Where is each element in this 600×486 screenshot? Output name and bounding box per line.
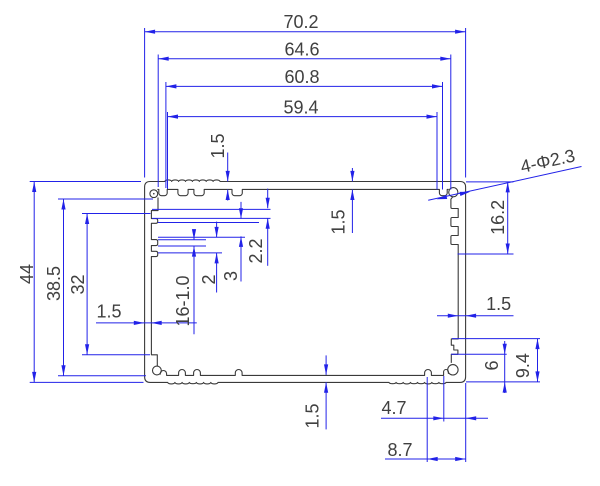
dim 70.2 line and arrows	[145, 31, 466, 33]
svg-text:1.5: 1.5	[329, 209, 349, 234]
inner ceiling with screw-groove notches	[157, 189, 448, 195]
dim 1.5 bottom wall line and arrows	[325, 355, 327, 375]
inner right wall with screw channel steps	[451, 197, 458, 363]
dim 1.5 left wall line and arrows	[96, 322, 197, 324]
dim 16.2 extension lines	[466, 181, 514, 183]
svg-text:32: 32	[68, 274, 88, 294]
svg-text:1.5: 1.5	[208, 133, 228, 158]
svg-text:59.4: 59.4	[283, 97, 318, 117]
dim 16.2 line and arrows	[507, 182, 509, 254]
dim 9.4 line and arrows	[537, 339, 539, 382]
svg-text:1.5: 1.5	[96, 302, 121, 322]
dim 1.5 top wall line and arrows	[227, 153, 229, 182]
svg-text:4.7: 4.7	[381, 398, 406, 418]
svg-text:3: 3	[221, 271, 241, 281]
dim 8.7 extension line	[426, 377, 428, 462]
dim 2 extension line	[158, 252, 222, 254]
dim 1.5 right wall line and arrows	[437, 315, 514, 317]
dim 2.2 line and arrows	[267, 189, 269, 209]
dim 60.8 extension lines	[165, 82, 167, 188]
dim 6 extension line	[451, 353, 507, 355]
svg-text:2: 2	[199, 274, 219, 284]
svg-text:6: 6	[482, 360, 502, 370]
svg-text:1.5: 1.5	[303, 403, 323, 428]
svg-text:8.7: 8.7	[387, 440, 412, 460]
dim 60.8 line and arrows	[166, 85, 443, 87]
dim 2.2 extension lines	[152, 208, 271, 210]
svg-text:16.2: 16.2	[488, 200, 508, 235]
dim 59.4 line and arrows	[168, 116, 438, 118]
dim 44 extension lines	[30, 181, 141, 183]
inner left wall with card-guide slots	[151, 198, 158, 367]
svg-text:44: 44	[17, 264, 37, 284]
dim 2 line and arrows	[216, 222, 218, 238]
svg-text:1.5: 1.5	[486, 294, 511, 314]
dim 64.6 line and arrows	[158, 58, 451, 60]
screw boss top-right	[449, 188, 458, 197]
svg-text:70.2: 70.2	[283, 12, 318, 32]
svg-text:16-1.0: 16-1.0	[173, 275, 193, 326]
dim 8.7 line and arrows	[385, 458, 466, 460]
dim 16-1.0 line and arrows	[193, 229, 195, 239]
inner floor with screw-groove bumps	[160, 369, 448, 375]
dim 9.4 extension lines	[452, 338, 540, 340]
svg-text:38.5: 38.5	[44, 266, 64, 301]
dim 32 extension lines	[82, 213, 151, 215]
svg-text:4-Φ2.3: 4-Φ2.3	[519, 145, 577, 176]
dim 6 line and arrows	[504, 341, 506, 393]
svg-text:60.8: 60.8	[284, 67, 319, 87]
dim 32 line and arrows	[86, 214, 88, 355]
dim 4.7 line and arrows	[381, 417, 488, 419]
dim 59.4 extension lines	[167, 112, 169, 189]
svg-text:9.4: 9.4	[513, 353, 533, 378]
dim 38.5 extension lines	[58, 198, 153, 200]
profile outer outline with knurled texture	[145, 180, 466, 384]
dim 70.2 extension lines	[144, 28, 146, 178]
screw boss bottom-left	[153, 366, 162, 375]
screw boss bottom-right	[448, 365, 458, 375]
screw boss top-left	[150, 190, 158, 198]
dim 64.6 extension lines	[157, 55, 159, 188]
dim 44 line and arrows	[33, 182, 35, 383]
dim 3 line and arrows	[240, 202, 242, 219]
dim 1.5 top wall second line and arrows	[351, 168, 353, 181]
dim 3 extension line	[158, 236, 245, 238]
svg-text:2.2: 2.2	[246, 238, 266, 263]
svg-text:64.6: 64.6	[284, 39, 319, 59]
leader line for corner screw holes	[428, 167, 581, 201]
dim 38.5 line and arrows	[63, 199, 65, 376]
dim 16-1.0 extension lines	[158, 239, 206, 241]
dim 4.7 extension lines	[443, 376, 445, 422]
